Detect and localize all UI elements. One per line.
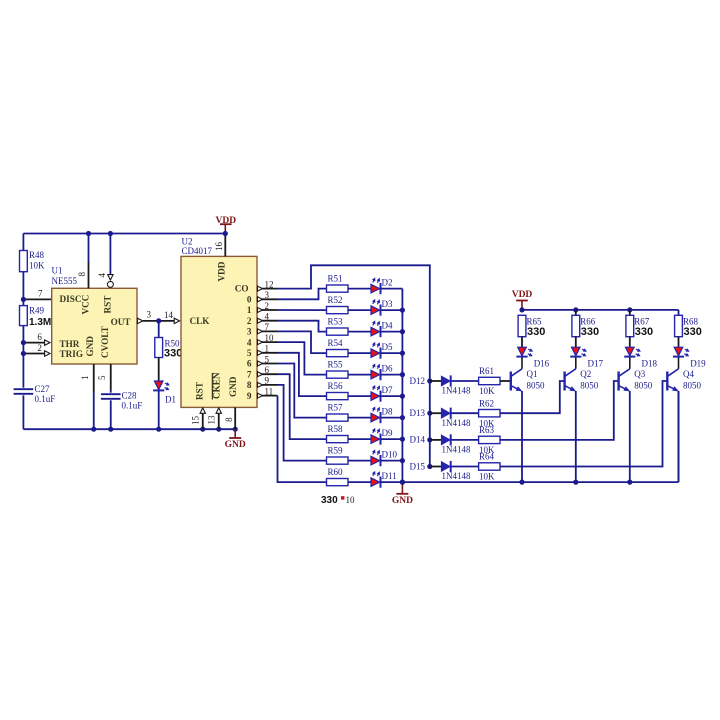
wire pin 7 [23, 298, 51, 300]
resistor R56 [327, 393, 349, 400]
svg-text:R56: R56 [328, 381, 344, 391]
svg-text:RST: RST [103, 296, 113, 314]
resistor R64 [479, 463, 500, 470]
wire top rail [23, 233, 225, 235]
diode D15 1N4148 [427, 464, 432, 469]
svg-text:330: 330 [321, 495, 338, 506]
resistor R65 [518, 315, 526, 336]
svg-text:D5: D5 [382, 342, 393, 352]
wire U2 pin 2 to R52 [278, 309, 327, 311]
svg-text:6: 6 [37, 332, 42, 342]
svg-text:11: 11 [265, 386, 274, 396]
wire [348, 417, 371, 419]
diode D13 1N4148 [427, 411, 432, 416]
wire RST pin 4 [109, 234, 111, 275]
wire LED cathode bus [401, 289, 403, 483]
svg-text:D7: D7 [382, 385, 393, 395]
resistor R61 [479, 377, 500, 384]
svg-text:10K: 10K [29, 261, 45, 271]
LED D6 [371, 370, 380, 379]
wire [452, 412, 479, 414]
svg-text:8050: 8050 [683, 381, 702, 391]
svg-text:7: 7 [265, 322, 270, 332]
svg-text:6: 6 [247, 359, 252, 369]
svg-text:D15: D15 [410, 461, 426, 471]
pin 11 [257, 395, 278, 397]
svg-text:2: 2 [37, 343, 42, 353]
svg-text:1N4148: 1N4148 [442, 418, 471, 428]
wire [348, 395, 371, 397]
transistor Q2 8050 [563, 372, 565, 391]
svg-text:0.1uF: 0.1uF [35, 394, 56, 404]
pin 9 [257, 384, 278, 386]
svg-text:D3: D3 [382, 299, 393, 309]
svg-text:GND: GND [228, 376, 238, 397]
svg-text:R51: R51 [328, 274, 343, 284]
LED D8 [371, 413, 380, 422]
wire [348, 481, 371, 483]
svg-text:Q3: Q3 [634, 369, 645, 379]
transistor Q4 8050 [666, 372, 668, 391]
pin 10 [257, 341, 278, 343]
svg-text:1: 1 [265, 344, 270, 354]
transistor Q1 8050 [510, 372, 512, 391]
pin 5 [257, 363, 278, 365]
wire [348, 288, 371, 290]
pin 1 [257, 352, 278, 354]
svg-text:8050: 8050 [527, 381, 546, 391]
svg-text:GND: GND [85, 336, 95, 357]
resistor R54 [327, 350, 349, 357]
wire [381, 352, 403, 354]
svg-text:R61: R61 [479, 366, 494, 376]
resistor R58 [327, 436, 349, 443]
wire R61 to Q1 base [500, 380, 511, 382]
svg-text:8: 8 [247, 380, 252, 390]
resistor R60 [327, 479, 349, 486]
svg-text:330: 330 [527, 326, 545, 338]
LED D7 [371, 392, 380, 401]
svg-text:D14: D14 [410, 435, 426, 445]
svg-text:R54: R54 [328, 338, 344, 348]
svg-text:R58: R58 [328, 424, 344, 434]
LED D19 [674, 347, 683, 356]
svg-text:R60: R60 [328, 467, 344, 477]
wire [381, 395, 403, 397]
svg-text:R64: R64 [479, 452, 495, 462]
wire [381, 288, 403, 290]
svg-text:VDD: VDD [512, 290, 533, 300]
wire VDD rail [522, 309, 679, 311]
wire [452, 439, 479, 441]
LED D1 [154, 381, 163, 390]
wire U2 pin 5 to R57 [278, 364, 327, 418]
LED D2 [371, 284, 380, 293]
wire [348, 438, 371, 440]
svg-text:12: 12 [265, 279, 274, 289]
wire pin 6 [23, 342, 44, 344]
wire [381, 417, 403, 419]
value 330 x10 [341, 496, 344, 499]
wire left rail [22, 234, 24, 430]
wire U2 pin 11 to R60 [278, 396, 327, 483]
svg-text:2: 2 [247, 316, 252, 326]
transistor Q3 8050 [617, 372, 619, 391]
svg-text:CD4017: CD4017 [182, 246, 213, 256]
wire pin 2 [23, 353, 44, 355]
svg-text:DISC: DISC [60, 294, 82, 304]
svg-text:D12: D12 [410, 376, 426, 386]
wire R64 to Q4 base [500, 381, 667, 467]
svg-text:D17: D17 [588, 359, 604, 369]
LED D17 [572, 347, 581, 356]
wire GND pin 1 [93, 364, 95, 392]
svg-text:C27: C27 [35, 384, 51, 394]
svg-text:D1: D1 [165, 395, 176, 405]
svg-text:OUT: OUT [111, 317, 131, 327]
pin 3 [257, 298, 278, 300]
svg-text:D16: D16 [534, 359, 550, 369]
wire [521, 337, 523, 347]
resistor R48 [20, 251, 28, 272]
wire emitter [575, 391, 577, 482]
LED D4 [371, 327, 380, 336]
pin 12 [257, 288, 278, 290]
wire U2 pin 9 to R59 [278, 385, 327, 461]
LED D3 [371, 306, 380, 315]
svg-text:Q1: Q1 [527, 369, 538, 379]
svg-text:R59: R59 [328, 446, 344, 456]
resistor R52 [327, 307, 349, 314]
capacitor C27 [17, 388, 29, 396]
wire CO (pin12) to diode bus [278, 265, 430, 381]
svg-text:1N4148: 1N4148 [442, 471, 471, 481]
svg-text:D19: D19 [690, 359, 706, 369]
svg-text:D11: D11 [382, 471, 397, 481]
wire U2 pin 7 to R54 [278, 331, 327, 353]
svg-text:1: 1 [80, 376, 90, 381]
svg-text:D18: D18 [642, 359, 658, 369]
wire [348, 460, 371, 462]
wire [381, 438, 403, 440]
svg-text:4: 4 [265, 312, 270, 322]
svg-text:8050: 8050 [634, 381, 653, 391]
svg-text:R53: R53 [328, 317, 344, 327]
svg-text:Q2: Q2 [580, 369, 591, 379]
svg-text:NE555: NE555 [52, 276, 78, 286]
wire U2 pin 10 to R55 [278, 342, 327, 375]
svg-text:U1: U1 [52, 266, 63, 276]
wire emitter [629, 391, 631, 482]
node OUT junction [156, 318, 161, 323]
wire emitter [521, 391, 523, 482]
wire [348, 331, 371, 333]
svg-text:R52: R52 [328, 295, 343, 305]
LED D16 [518, 347, 527, 356]
svg-text:D2: D2 [382, 278, 393, 288]
pin 4 [257, 320, 278, 322]
diode D14 1N4148 [427, 437, 432, 442]
svg-text:D6: D6 [382, 364, 393, 374]
resistor R63 [479, 436, 500, 443]
svg-text:D10: D10 [382, 450, 398, 460]
svg-text:CLK: CLK [190, 316, 211, 326]
svg-text:THR: THR [60, 339, 80, 349]
svg-text:3: 3 [147, 310, 152, 320]
svg-text:D8: D8 [382, 407, 393, 417]
diode D12 1N4148 [427, 378, 432, 383]
op-amp U1 NE555 body [52, 288, 137, 364]
wire [381, 481, 403, 483]
wire R63 to Q3 base [500, 381, 619, 440]
svg-text:0.1uF: 0.1uF [122, 401, 143, 411]
wire U2 pin 3 to R51 [278, 289, 327, 300]
svg-text:R48: R48 [29, 250, 45, 260]
resistor R51 [327, 285, 349, 292]
svg-text:5: 5 [247, 348, 252, 358]
resistor R57 [327, 414, 349, 421]
svg-text:7: 7 [38, 289, 43, 299]
wire diode anode bus [429, 381, 431, 467]
svg-text:GND: GND [225, 440, 246, 450]
ground (CD4017 GND) [200, 427, 205, 432]
svg-text:13: 13 [206, 415, 216, 425]
svg-text:D13: D13 [410, 408, 426, 418]
svg-text:VCC: VCC [80, 295, 90, 315]
svg-text:GND: GND [392, 496, 413, 506]
svg-text:3: 3 [247, 327, 252, 337]
resistor R68 [675, 315, 683, 336]
pin 6 [257, 373, 278, 375]
svg-text:8: 8 [224, 417, 234, 422]
svg-text:10K: 10K [479, 472, 495, 482]
resistor R67 [629, 310, 631, 315]
wire OUT pin 3 to CLK pin 14 [137, 318, 142, 323]
svg-text:5: 5 [97, 375, 107, 380]
svg-text:7: 7 [247, 369, 252, 379]
svg-text:4: 4 [247, 337, 252, 347]
wire bottom rail [23, 428, 235, 430]
svg-text:R63: R63 [479, 425, 495, 435]
svg-text:R57: R57 [328, 403, 344, 413]
wire emitter rail [402, 481, 678, 483]
svg-text:TRIG: TRIG [60, 349, 84, 359]
wire U2 pin 1 to R56 [278, 353, 327, 396]
svg-text:R55: R55 [328, 360, 344, 370]
wire [381, 460, 403, 462]
svg-text:CO: CO [235, 284, 249, 294]
pin 2 [257, 309, 278, 311]
svg-text:4: 4 [97, 273, 107, 278]
wire [575, 337, 577, 347]
pin 7 [257, 330, 278, 332]
svg-text:R49: R49 [29, 306, 45, 316]
wire CVOLT pin 5 [110, 364, 112, 390]
LED D5 [371, 349, 380, 358]
svg-text:2: 2 [265, 301, 270, 311]
wire [381, 374, 403, 376]
wire U2 pin 4 to R53 [278, 321, 327, 332]
resistor R53 [327, 328, 349, 335]
wire [381, 331, 403, 333]
svg-text:14: 14 [164, 310, 174, 320]
svg-text:10K: 10K [479, 386, 495, 396]
resistor R55 [327, 371, 349, 378]
svg-text:8050: 8050 [580, 381, 599, 391]
svg-text:10: 10 [346, 495, 356, 505]
LED D10 [371, 456, 380, 465]
LED D11 [371, 478, 380, 487]
LED D9 [371, 435, 380, 444]
svg-text:330: 330 [635, 326, 653, 338]
svg-text:330: 330 [684, 326, 702, 338]
svg-text:VDD: VDD [216, 261, 226, 281]
resistor R62 [479, 410, 500, 417]
capacitor C28 [105, 393, 117, 401]
wire VCC pin 8 [88, 234, 90, 263]
wire R62 to Q2 base [500, 381, 565, 413]
svg-text:R62: R62 [479, 398, 494, 408]
wire [348, 309, 371, 311]
wire [348, 352, 371, 354]
LED D18 [626, 347, 635, 356]
svg-text:C28: C28 [122, 390, 138, 400]
resistor R66 [575, 310, 577, 315]
resistor R49 [20, 306, 28, 326]
svg-text:16: 16 [214, 242, 224, 252]
svg-text:10: 10 [265, 333, 275, 343]
wire [452, 380, 479, 382]
svg-text:Q4: Q4 [683, 369, 694, 379]
resistor R50 [158, 321, 160, 338]
wire [678, 337, 680, 347]
svg-text:3: 3 [265, 290, 270, 300]
ground (LED bus) [401, 482, 403, 494]
svg-text:9: 9 [247, 391, 252, 401]
svg-text:6: 6 [265, 365, 270, 375]
svg-text:5: 5 [265, 354, 270, 364]
wire [348, 374, 371, 376]
wire U2 bottom pins 15,13,8 [202, 413, 204, 429]
wire [629, 337, 631, 347]
svg-text:0: 0 [247, 295, 252, 305]
wire emitter [678, 391, 680, 482]
wire [452, 466, 479, 468]
svg-text:15: 15 [190, 416, 200, 426]
svg-text:D4: D4 [382, 321, 393, 331]
IC U2 CD4017 body [181, 256, 257, 407]
svg-text:CVOLT: CVOLT [100, 326, 110, 358]
svg-text:CKEN: CKEN [212, 372, 222, 399]
svg-text:1N4148: 1N4148 [442, 445, 471, 455]
svg-text:330: 330 [581, 326, 599, 338]
wire U2 pin 6 to R58 [278, 374, 327, 439]
svg-text:1: 1 [247, 305, 252, 315]
svg-text:330: 330 [164, 348, 182, 360]
svg-text:9: 9 [265, 376, 270, 386]
svg-text:RST: RST [195, 382, 205, 400]
node pin7 junction [21, 297, 26, 302]
svg-text:D9: D9 [382, 428, 393, 438]
svg-text:8: 8 [77, 272, 87, 277]
svg-text:1N4148: 1N4148 [442, 386, 471, 396]
wire [381, 309, 403, 311]
svg-text:1.3M: 1.3M [29, 317, 51, 328]
resistor R59 [327, 457, 349, 464]
